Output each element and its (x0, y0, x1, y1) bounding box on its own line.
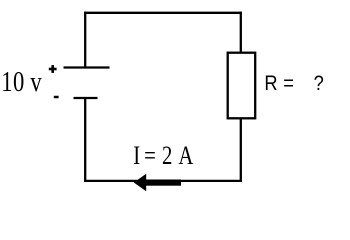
current arrow (I, pointing left) (134, 174, 181, 192)
plus terminal label (49, 65, 57, 73)
svg-text:v: v (30, 65, 41, 97)
svg-text:R: R (264, 72, 277, 96)
svg-text:2: 2 (162, 142, 172, 171)
label 10 v (1, 65, 41, 97)
wire top horizontal (84, 12, 242, 14)
svg-text:=: = (144, 142, 156, 171)
svg-text:1: 1 (1, 65, 12, 97)
svg-text:=: = (283, 72, 294, 96)
label R = ? (264, 72, 323, 96)
label I = 2 A (133, 142, 193, 171)
wire right vertical lower (240, 118, 242, 182)
battery V1 (10 V source) (64, 68, 110, 99)
resistor R (228, 53, 256, 119)
svg-text:0: 0 (13, 65, 24, 97)
minus terminal label (54, 96, 59, 99)
svg-text:A: A (178, 142, 193, 171)
wire left vertical upper (84, 12, 86, 67)
wire left vertical lower (84, 98, 86, 182)
wire right vertical upper (240, 12, 242, 54)
svg-text:I: I (133, 142, 140, 171)
svg-text:?: ? (314, 72, 324, 96)
wire bottom horizontal (84, 180, 242, 182)
